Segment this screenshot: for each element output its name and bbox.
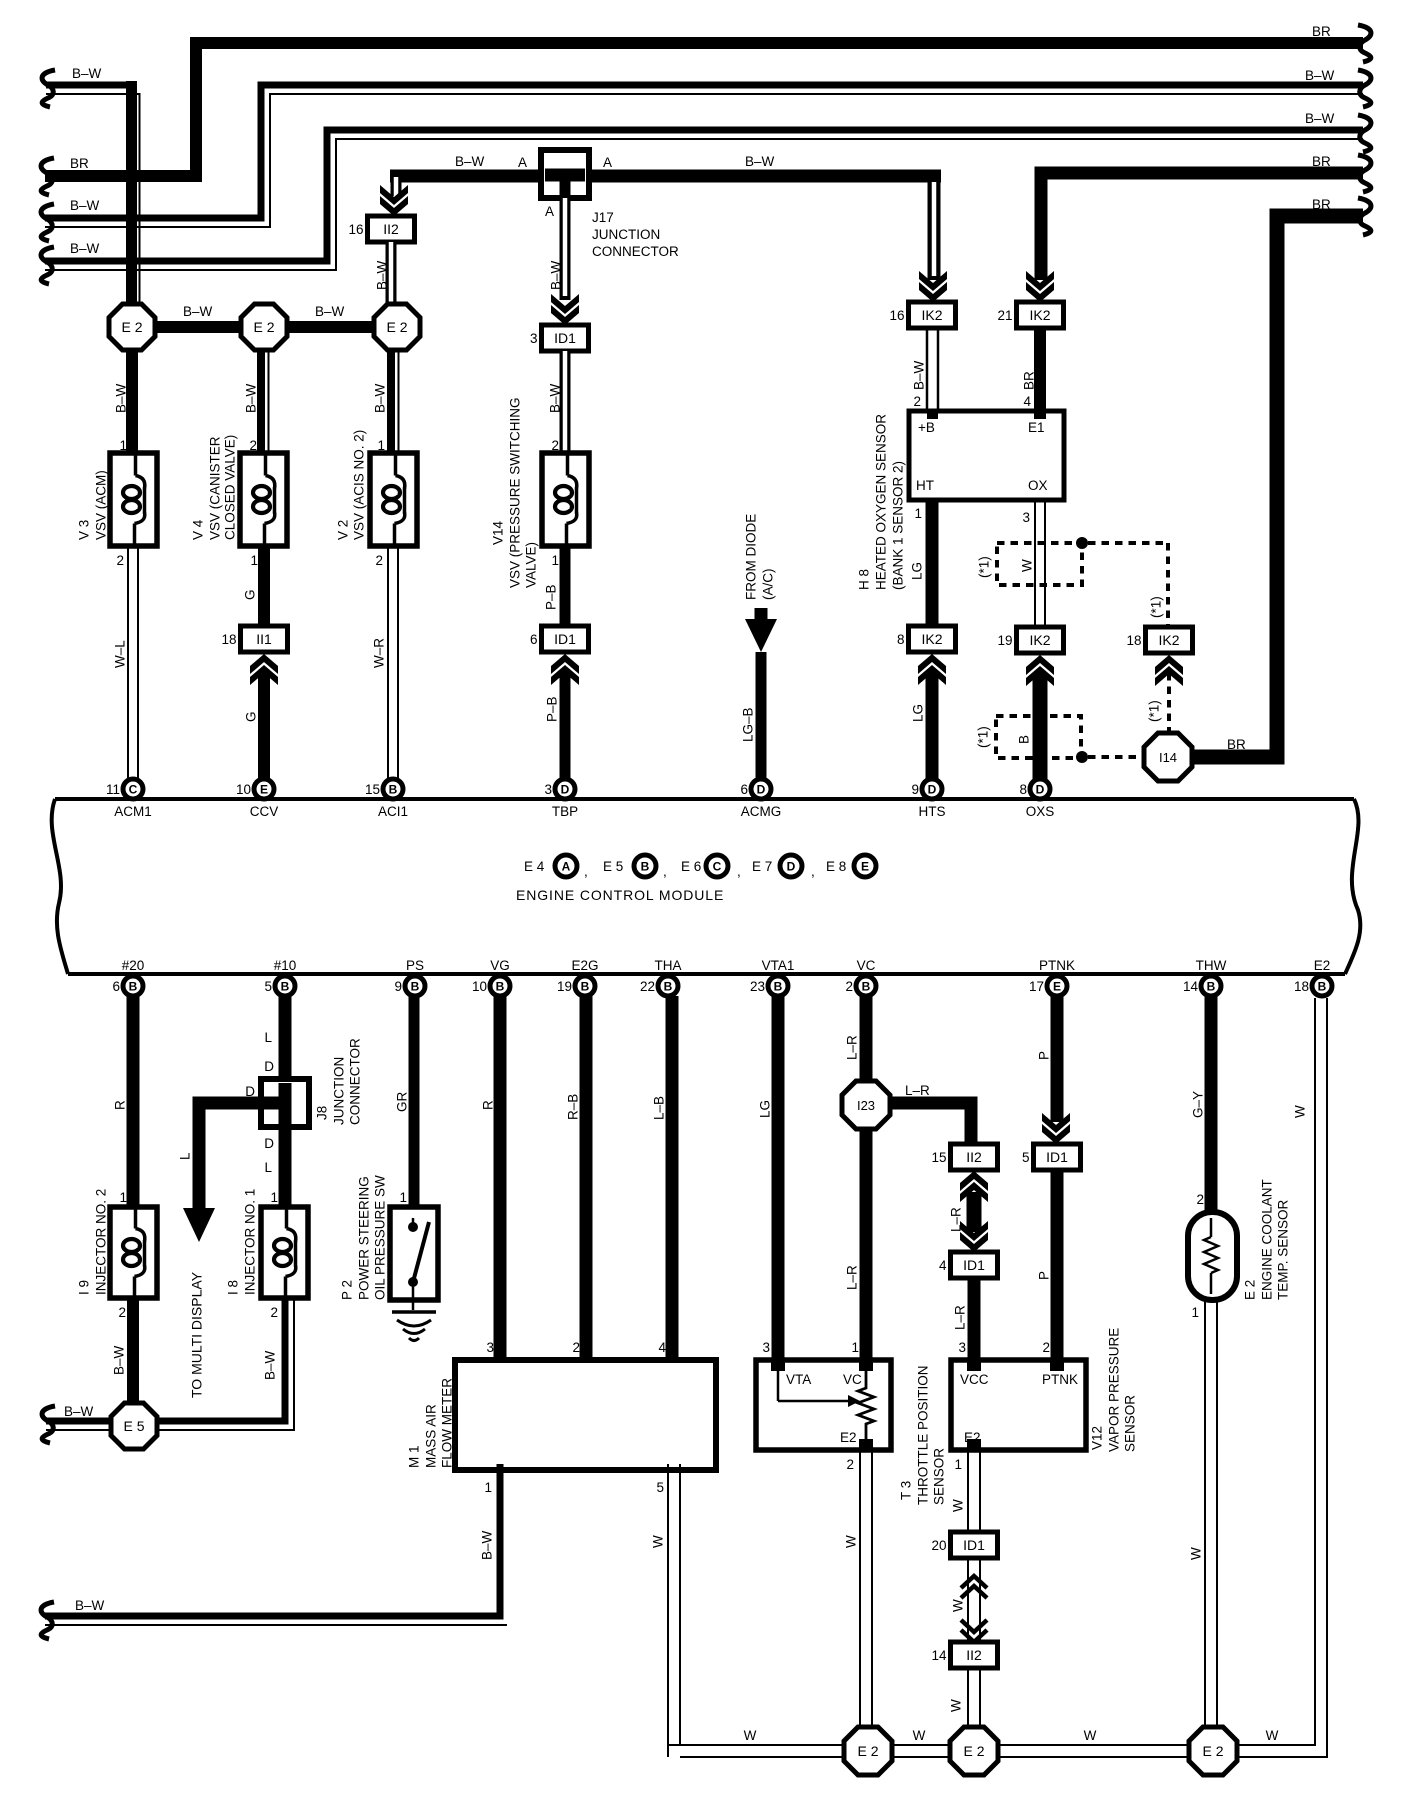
wire L-B from THA to mass air flow meter bbox=[652, 996, 673, 1372]
node E2 (2) bbox=[241, 304, 287, 350]
ECM pin 9 B PS bbox=[394, 958, 425, 996]
svg-text:P–B: P–B bbox=[544, 584, 559, 610]
wire L-R from I23 to throttle position sensor bbox=[845, 1127, 867, 1371]
svg-text:VTA1: VTA1 bbox=[762, 958, 795, 973]
svg-text:OXS: OXS bbox=[1026, 804, 1055, 819]
ECM pin 9 D HTS bbox=[911, 779, 945, 819]
wire B-W from IK2(16) to H8 +B bbox=[912, 328, 939, 418]
ECM pin 18 B E2 bbox=[1294, 958, 1332, 996]
mass air flow meter M1 bbox=[407, 1360, 717, 1470]
svg-text:B–W: B–W bbox=[70, 241, 100, 256]
svg-text:G: G bbox=[243, 589, 258, 600]
svg-text:W: W bbox=[1293, 1105, 1308, 1118]
svg-text:20: 20 bbox=[931, 1538, 946, 1553]
svg-text:1: 1 bbox=[484, 1480, 492, 1495]
svg-text:2: 2 bbox=[845, 979, 853, 994]
svg-text:14: 14 bbox=[1183, 979, 1199, 994]
break symbol right B-W 3 bbox=[1358, 115, 1371, 152]
node E2 bottom b bbox=[950, 1727, 998, 1775]
svg-text:A: A bbox=[603, 155, 612, 170]
connector box II2 pin 16 bbox=[348, 216, 414, 242]
svg-text:IK2: IK2 bbox=[921, 631, 942, 647]
svg-text:6: 6 bbox=[112, 979, 120, 994]
wire G-Y from THW to coolant temp sensor bbox=[1191, 996, 1212, 1212]
svg-text:W: W bbox=[951, 1499, 966, 1512]
svg-text:3: 3 bbox=[1022, 510, 1030, 525]
svg-text:I 8: I 8 bbox=[226, 1280, 241, 1295]
dashed wire from dot to IK2(18) bbox=[1076, 537, 1168, 626]
connector box IK2 pin 16 bbox=[889, 302, 955, 328]
svg-text:D: D bbox=[787, 860, 796, 874]
svg-text:9: 9 bbox=[911, 782, 919, 797]
svg-text:B–W: B–W bbox=[64, 1404, 94, 1419]
svg-text:BR: BR bbox=[1312, 154, 1331, 169]
svg-text:FLOW METER: FLOW METER bbox=[440, 1378, 455, 1468]
svg-text:8: 8 bbox=[897, 632, 905, 647]
svg-text:A: A bbox=[562, 860, 571, 874]
svg-text:B–W: B–W bbox=[75, 1598, 105, 1613]
svg-text:II1: II1 bbox=[256, 631, 272, 647]
wire G from II1(18) to ECM pin CCV with arrow bbox=[244, 654, 279, 780]
ECM pin 6 B #20 bbox=[112, 958, 144, 996]
wire P-B from ID1(6) to ECM pin TBP with arrow bbox=[545, 654, 580, 780]
svg-text:B: B bbox=[1207, 980, 1216, 994]
svg-text:B: B bbox=[581, 980, 590, 994]
svg-text:E: E bbox=[1053, 980, 1061, 994]
svg-text:5: 5 bbox=[1022, 1150, 1030, 1165]
dashed box (*1) B around OXS wire bbox=[976, 716, 1082, 758]
svg-text:J8: J8 bbox=[315, 1106, 330, 1120]
svg-text:16: 16 bbox=[348, 222, 363, 237]
wire LG-B from diode (A/C) to ECM pin ACMG bbox=[741, 514, 778, 780]
svg-text:B: B bbox=[641, 860, 650, 874]
ground symbol below P2 bbox=[392, 1312, 436, 1341]
svg-text:B–W: B–W bbox=[1305, 68, 1335, 83]
svg-text:E 4: E 4 bbox=[524, 859, 545, 874]
svg-text:IK2: IK2 bbox=[921, 307, 942, 323]
svg-text:HEATED OXYGEN SENSOR: HEATED OXYGEN SENSOR bbox=[874, 414, 889, 590]
svg-text:E 2: E 2 bbox=[963, 1743, 984, 1759]
svg-text:(*1): (*1) bbox=[977, 556, 992, 578]
svg-text:E 5: E 5 bbox=[123, 1418, 144, 1434]
svg-text:1: 1 bbox=[270, 1190, 278, 1205]
svg-text:E: E bbox=[260, 783, 268, 797]
svg-text:J17: J17 bbox=[592, 210, 614, 225]
svg-text:E2: E2 bbox=[1314, 958, 1331, 973]
svg-text:E1: E1 bbox=[1028, 420, 1045, 435]
wire from IK2(19) to ECM pin OXS with arrow bbox=[1026, 655, 1054, 780]
svg-text:E 2: E 2 bbox=[1202, 1743, 1223, 1759]
wire W bus segment to E2(a) bbox=[668, 1728, 845, 1757]
svg-text:21: 21 bbox=[997, 308, 1012, 323]
ECM pin 11 C ACM1 bbox=[106, 779, 152, 819]
svg-text:H 8: H 8 bbox=[857, 569, 872, 590]
svg-text:18: 18 bbox=[221, 632, 236, 647]
svg-text:1: 1 bbox=[399, 1190, 407, 1205]
wire L-R from ID1(4) to V12 VCC bbox=[953, 1278, 975, 1371]
node I23 bbox=[842, 1081, 890, 1129]
ECM bottom edge bbox=[68, 972, 1345, 976]
svg-text:E: E bbox=[861, 860, 869, 874]
node E2 bottom c bbox=[1189, 1727, 1237, 1775]
wire B-W to J17 and HTS branch bbox=[390, 154, 941, 176]
svg-text:V12: V12 bbox=[1090, 1426, 1105, 1450]
svg-text:4: 4 bbox=[1023, 394, 1031, 409]
svg-text:II2: II2 bbox=[966, 1149, 982, 1165]
wire L/D from #10 to J8 bbox=[264, 996, 285, 1081]
svg-text:ID1: ID1 bbox=[963, 1537, 985, 1553]
wire W from temp sensor to E2 bottom node bbox=[1189, 1300, 1218, 1729]
dashed box (*1) around OX wire bbox=[977, 543, 1083, 585]
wire B-W from E2(3) to VSV V2 bbox=[373, 348, 399, 454]
svg-text:W: W bbox=[1266, 1728, 1279, 1743]
svg-text:B: B bbox=[1318, 980, 1327, 994]
svg-text:2: 2 bbox=[572, 1340, 580, 1355]
wire D/L from J8 to injector I8 bbox=[264, 1123, 285, 1208]
svg-text:B–W: B–W bbox=[373, 383, 388, 413]
wire W-L from V3 to ECM pin ACM1 bbox=[113, 546, 139, 780]
svg-text:E2G: E2G bbox=[571, 958, 598, 973]
svg-text:5: 5 bbox=[656, 1480, 664, 1495]
node E2 (1) bbox=[109, 304, 155, 350]
svg-text:19: 19 bbox=[557, 979, 572, 994]
wire L from J8 to multi display arrow bbox=[178, 1103, 286, 1398]
wire W arrows between ID1(20) and II2(14) bbox=[951, 1558, 988, 1642]
break symbol left B-W bottom bbox=[41, 1602, 54, 1639]
svg-text:V 2: V 2 bbox=[336, 520, 351, 540]
svg-text:B–W: B–W bbox=[912, 360, 927, 390]
wire W from T3 E2 to E2 bottom node bbox=[844, 1444, 873, 1729]
power steering oil pressure switch P2 bbox=[340, 1175, 439, 1310]
svg-text:,: , bbox=[584, 864, 588, 879]
svg-text:(*1): (*1) bbox=[1147, 700, 1162, 722]
wire arrow down into IK2(16) bbox=[919, 176, 947, 302]
connector box II1 pin 18 bbox=[221, 626, 287, 652]
wire B-W bus 3 (left break, elbow up at x=327, to right break) bbox=[45, 111, 1363, 270]
svg-text:3: 3 bbox=[530, 331, 538, 346]
svg-text:L–R: L–R bbox=[905, 1083, 930, 1098]
junction connector J17 bbox=[518, 150, 679, 259]
svg-text:B–W: B–W bbox=[112, 1345, 127, 1375]
wire B-W stub from left break down to E2 node (ACM1 branch) bbox=[46, 66, 140, 310]
ECM pin 15 B ACI1 bbox=[365, 779, 408, 819]
ECM pin 17 E PTNK bbox=[1029, 958, 1075, 996]
svg-text:,: , bbox=[811, 864, 815, 879]
break symbol left B-W top bbox=[42, 70, 55, 107]
svg-text:ID1: ID1 bbox=[963, 1257, 985, 1273]
ECM left torn border bbox=[52, 799, 68, 974]
svg-text:INJECTOR NO. 2: INJECTOR NO. 2 bbox=[94, 1189, 109, 1295]
svg-text:9: 9 bbox=[394, 979, 402, 994]
svg-text:2: 2 bbox=[118, 1305, 126, 1320]
wire B-W from left break to E5 bbox=[46, 1404, 113, 1430]
svg-text:P 2: P 2 bbox=[340, 1280, 355, 1300]
wire P from ID1(5) to V12 PTNK bbox=[1037, 1170, 1058, 1371]
wire W bus segment E2(b)-E2(c) bbox=[997, 1728, 1190, 1757]
wire B-W from E2(2) to VSV V4 bbox=[244, 348, 269, 454]
wire B-W from I8 down to E5 node bbox=[150, 1298, 294, 1430]
wire W from M1 pin5 to E2 bottom bus bbox=[651, 1464, 681, 1757]
svg-text:PS: PS bbox=[406, 958, 424, 973]
svg-text:E 2: E 2 bbox=[386, 319, 407, 335]
throttle position sensor T3 bbox=[756, 1360, 947, 1505]
svg-text:B–W: B–W bbox=[114, 383, 129, 413]
svg-text:E 5: E 5 bbox=[603, 859, 623, 874]
svg-text:E 2: E 2 bbox=[1243, 1280, 1258, 1300]
svg-text:(A/C): (A/C) bbox=[761, 569, 776, 601]
svg-text:B–W: B–W bbox=[244, 383, 259, 413]
svg-text:B–W: B–W bbox=[455, 154, 485, 169]
svg-text:BR: BR bbox=[70, 156, 89, 171]
svg-text:17: 17 bbox=[1029, 979, 1044, 994]
svg-text:PTNK: PTNK bbox=[1042, 1372, 1078, 1387]
svg-text:W: W bbox=[1020, 559, 1035, 572]
svg-text:B–W: B–W bbox=[549, 260, 564, 290]
svg-text:OIL PRESSURE SW: OIL PRESSURE SW bbox=[373, 1175, 388, 1300]
svg-text:T 3: T 3 bbox=[899, 1481, 914, 1500]
wire G from V4 to II1(18) bbox=[243, 546, 265, 626]
connector box ID1 pin 3 bbox=[530, 325, 589, 351]
svg-text:B–W: B–W bbox=[72, 66, 102, 81]
svg-text:G–Y: G–Y bbox=[1191, 1091, 1206, 1118]
svg-text:3: 3 bbox=[486, 1340, 494, 1355]
wire BR right lower, down to I14 bbox=[1192, 197, 1363, 757]
wire W from H8 OX to IK2(19) bbox=[1022, 500, 1045, 626]
svg-text:14: 14 bbox=[931, 1648, 947, 1663]
svg-text:#10: #10 bbox=[274, 958, 297, 973]
svg-text:15: 15 bbox=[365, 782, 380, 797]
svg-text:GR: GR bbox=[395, 1091, 410, 1112]
wire GR from PS to P2 switch bbox=[395, 996, 415, 1208]
svg-text:G: G bbox=[244, 711, 259, 722]
svg-text:B: B bbox=[774, 980, 783, 994]
break symbol right BR 5 bbox=[1358, 198, 1371, 235]
wire BR right to IK2(21) bbox=[1026, 154, 1363, 302]
node E2 bottom a bbox=[844, 1727, 892, 1775]
wire B-W from I9 to E5 node bbox=[112, 1298, 134, 1405]
svg-text:ID1: ID1 bbox=[554, 330, 576, 346]
svg-text:2: 2 bbox=[375, 553, 383, 568]
svg-text:1: 1 bbox=[119, 1190, 127, 1205]
svg-text:15: 15 bbox=[931, 1150, 946, 1165]
wire B-W from II2(16) down to E2 node bbox=[375, 242, 392, 307]
svg-text:1: 1 bbox=[1191, 1305, 1199, 1320]
svg-text:INJECTOR NO. 1: INJECTOR NO. 1 bbox=[243, 1189, 258, 1295]
svg-text:HT: HT bbox=[916, 478, 934, 493]
wire B-W from E5 up (covered by pair) bbox=[127, 1348, 139, 1405]
svg-text:D: D bbox=[264, 1059, 274, 1074]
svg-text:2: 2 bbox=[116, 553, 124, 568]
svg-text:B: B bbox=[281, 980, 290, 994]
svg-text:HTS: HTS bbox=[919, 804, 946, 819]
svg-text:JUNCTION: JUNCTION bbox=[592, 227, 660, 242]
svg-text:B–W: B–W bbox=[315, 304, 345, 319]
svg-text:I14: I14 bbox=[1159, 750, 1177, 765]
wire B-W from ID1(3) to VSV V14 bbox=[548, 351, 566, 454]
svg-text:L: L bbox=[264, 1030, 272, 1045]
wire W from V12 E2 to ID1(20) bbox=[951, 1444, 981, 1532]
svg-text:TEMP. SENSOR: TEMP. SENSOR bbox=[1276, 1199, 1291, 1300]
svg-text:TO MULTI DISPLAY: TO MULTI DISPLAY bbox=[189, 1271, 205, 1398]
wire W bottom bus left elbow from M1 pin5 bbox=[667, 1745, 669, 1757]
VSV V3 (ACM) coil bbox=[77, 453, 158, 546]
svg-text:8: 8 bbox=[1019, 782, 1027, 797]
connector box IK2 pin 19 bbox=[997, 627, 1063, 653]
svg-text:B: B bbox=[1017, 735, 1032, 744]
connector box ID1 pin 6 bbox=[530, 626, 589, 652]
svg-text:W: W bbox=[949, 1699, 964, 1712]
ECM pin 6 D ACMG bbox=[740, 779, 781, 819]
svg-text:4: 4 bbox=[939, 1258, 947, 1273]
ECM pin 8 D OXS bbox=[1019, 779, 1054, 819]
wire W bus segment E2(a)-E2(b) bbox=[891, 1728, 951, 1757]
connector box IK2 pin 21 bbox=[997, 302, 1063, 328]
svg-text:LG: LG bbox=[911, 704, 926, 722]
svg-text:W–R: W–R bbox=[372, 638, 387, 668]
svg-text:VSV (ACM): VSV (ACM) bbox=[94, 470, 109, 540]
wire arrow down into II2(16) bbox=[380, 170, 408, 216]
wire R from #20 to injector I9 bbox=[113, 996, 134, 1208]
svg-text:(BANK 1 SENSOR 2): (BANK 1 SENSOR 2) bbox=[891, 461, 906, 590]
svg-text:E 2: E 2 bbox=[253, 319, 274, 335]
svg-text:IK2: IK2 bbox=[1029, 632, 1050, 648]
svg-text:FROM DIODE: FROM DIODE bbox=[744, 514, 759, 600]
svg-text:L–R: L–R bbox=[953, 1305, 968, 1330]
svg-text:2: 2 bbox=[913, 394, 921, 409]
wire BR from IK2(21) to H8 E1 bbox=[1022, 328, 1041, 418]
heated oxygen sensor H8 (bank 1 sensor 2) bbox=[857, 411, 1065, 590]
svg-text:23: 23 bbox=[750, 979, 765, 994]
vapor pressure sensor V12 bbox=[951, 1328, 1138, 1452]
svg-text:P: P bbox=[1037, 1271, 1052, 1280]
connector box II2 pin 15 bbox=[931, 1144, 997, 1170]
svg-text:2: 2 bbox=[1042, 1340, 1050, 1355]
svg-text:B: B bbox=[862, 980, 871, 994]
VSV V2 (ACIS no.2) coil bbox=[336, 430, 418, 546]
svg-text:18: 18 bbox=[1126, 633, 1141, 648]
svg-text:1: 1 bbox=[551, 553, 559, 568]
svg-text:VSV (PRESSURE SWITCHING: VSV (PRESSURE SWITCHING bbox=[508, 397, 523, 588]
svg-text:1: 1 bbox=[851, 1340, 859, 1355]
ECM pin 22 B THA bbox=[640, 958, 682, 996]
svg-text:B: B bbox=[389, 783, 398, 797]
VSV V14 (pressure switching valve) coil bbox=[491, 397, 590, 588]
svg-text:E2: E2 bbox=[840, 1430, 857, 1445]
svg-text:D: D bbox=[1036, 783, 1045, 797]
wire B-W from E2(1) to VSV V3 bbox=[114, 348, 133, 454]
connector box ID1 pin 20 bbox=[931, 1532, 997, 1558]
svg-text:W: W bbox=[913, 1728, 926, 1743]
svg-text:#20: #20 bbox=[122, 958, 145, 973]
svg-text:W–L: W–L bbox=[113, 640, 128, 668]
svg-text:L: L bbox=[264, 1160, 272, 1175]
wire P-B from V14 to ID1(6) bbox=[544, 546, 566, 626]
svg-text:2: 2 bbox=[270, 1305, 278, 1320]
svg-text:B: B bbox=[129, 980, 138, 994]
wire R from VG to mass air flow meter bbox=[481, 996, 501, 1372]
svg-text:6: 6 bbox=[740, 782, 748, 797]
svg-text:D: D bbox=[757, 783, 766, 797]
svg-text:22: 22 bbox=[640, 979, 655, 994]
svg-text:B–W: B–W bbox=[745, 154, 775, 169]
svg-text:W: W bbox=[844, 1535, 859, 1548]
svg-text:VC: VC bbox=[857, 958, 876, 973]
wire LG from VTA1 to throttle position sensor bbox=[758, 996, 779, 1371]
wire L-R from I23 to II2(15) bbox=[888, 1083, 971, 1146]
svg-text:+B: +B bbox=[918, 420, 935, 435]
svg-text:LG: LG bbox=[758, 1100, 773, 1118]
svg-text:3: 3 bbox=[762, 1340, 770, 1355]
svg-text:VCC: VCC bbox=[960, 1372, 989, 1387]
VSV V4 (canister closed valve) coil bbox=[191, 435, 288, 546]
svg-text:10: 10 bbox=[472, 979, 487, 994]
connector box IK2 pin 18 bbox=[1126, 627, 1192, 653]
svg-text:11: 11 bbox=[106, 782, 120, 797]
break symbol left B-W 3 bbox=[41, 247, 54, 284]
svg-text:B–W: B–W bbox=[263, 1350, 278, 1380]
svg-text:R: R bbox=[481, 1100, 496, 1110]
wire B-W from M1 pin1 to left break bbox=[45, 1464, 507, 1625]
svg-text:IK2: IK2 bbox=[1158, 632, 1179, 648]
svg-text:B: B bbox=[411, 980, 420, 994]
svg-text:D: D bbox=[264, 1136, 274, 1151]
wire W bus from E2(c) up to ECM pin E2 bbox=[1236, 998, 1327, 1757]
svg-text:THA: THA bbox=[655, 958, 682, 973]
svg-text:1: 1 bbox=[954, 1457, 962, 1472]
svg-text:BR: BR bbox=[1312, 24, 1331, 39]
svg-text:II2: II2 bbox=[383, 221, 399, 237]
ECM connector legend E4-E8 bbox=[524, 855, 876, 879]
svg-text:B–W: B–W bbox=[70, 198, 100, 213]
svg-text:E 8: E 8 bbox=[826, 859, 846, 874]
wire R-B from E2G to mass air flow meter bbox=[566, 996, 587, 1372]
svg-text:CONNECTOR: CONNECTOR bbox=[348, 1038, 363, 1125]
svg-text:LG–B: LG–B bbox=[741, 707, 756, 742]
svg-text:B–W: B–W bbox=[183, 304, 213, 319]
ECM top edge bbox=[55, 797, 1354, 801]
wire W-R from V2 to ECM pin ACI1 bbox=[372, 546, 399, 780]
svg-text:JUNCTION: JUNCTION bbox=[332, 1057, 347, 1125]
svg-text:L–R: L–R bbox=[845, 1265, 860, 1290]
svg-text:1: 1 bbox=[250, 553, 258, 568]
svg-text:ENGINE CONTROL MODULE: ENGINE CONTROL MODULE bbox=[516, 887, 724, 903]
svg-text:THROTTLE POSITION: THROTTLE POSITION bbox=[916, 1365, 931, 1505]
node E5 bbox=[111, 1403, 157, 1449]
svg-text:B–W: B–W bbox=[548, 383, 563, 413]
svg-text:LG: LG bbox=[910, 562, 925, 580]
svg-text:D: D bbox=[561, 783, 570, 797]
svg-text:E2: E2 bbox=[964, 1430, 981, 1445]
svg-text:D: D bbox=[928, 783, 937, 797]
svg-text:THW: THW bbox=[1196, 958, 1227, 973]
svg-text:TBP: TBP bbox=[552, 804, 578, 819]
svg-text:CONNECTOR: CONNECTOR bbox=[592, 244, 679, 259]
svg-text:L–R: L–R bbox=[845, 1035, 860, 1060]
svg-text:R: R bbox=[113, 1100, 128, 1110]
svg-text:16: 16 bbox=[889, 308, 904, 323]
svg-text:V 3: V 3 bbox=[77, 520, 92, 540]
svg-text:W: W bbox=[1084, 1728, 1097, 1743]
ECM pin 5 B #10 bbox=[264, 958, 296, 996]
svg-text:B: B bbox=[496, 980, 505, 994]
svg-text:P: P bbox=[1037, 1051, 1052, 1060]
svg-text:ID1: ID1 bbox=[1046, 1149, 1068, 1165]
svg-text:W: W bbox=[744, 1728, 757, 1743]
ECM pin 23 B VTA1 bbox=[750, 958, 794, 996]
wire P from PTNK to ID1(5) bbox=[1037, 996, 1071, 1144]
svg-text:I 9: I 9 bbox=[77, 1280, 92, 1295]
svg-text:VG: VG bbox=[490, 958, 510, 973]
